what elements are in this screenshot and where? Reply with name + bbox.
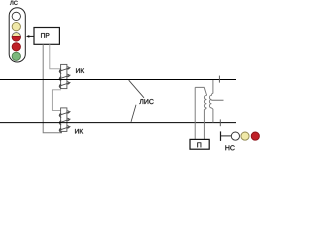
signal НС lamp yellow: [241, 132, 249, 140]
wire ПР right down to upper coil: [50, 44, 61, 69]
label НС: [225, 145, 234, 150]
arrow ПР to signal: [26, 35, 34, 38]
wire ПР left down to lower coil: [43, 44, 61, 133]
signal НС lamp white: [231, 132, 239, 140]
lamp green: [12, 52, 20, 60]
lamp yellow: [12, 22, 20, 30]
coil ИК upper: winding: [59, 67, 70, 88]
relay box ПР: [34, 28, 59, 45]
wire right winding top to upper rail: [211, 80, 213, 94]
label ИК lower: [75, 129, 83, 134]
transformer left winding wire to rail (left loop): [195, 87, 206, 94]
coil ИК upper: core: [61, 64, 67, 88]
coil ИК lower: winding: [59, 111, 70, 132]
leader ЛИС to upper rail: [129, 80, 144, 98]
wire left winding bottom to box П: [204, 108, 206, 139]
signal НС mast bar: [220, 131, 222, 141]
coil ИК lower: core: [61, 108, 67, 131]
bond tick on lower rail: [219, 119, 221, 126]
transformer left winding: [204, 94, 206, 108]
rail lower: [0, 122, 236, 124]
signal НС mast line: [221, 135, 232, 137]
receiver box П: [190, 139, 209, 149]
signal ЛС head: [9, 8, 25, 62]
label ЛИС: [139, 99, 153, 104]
bond tick on upper rail: [218, 76, 220, 83]
lamp half yellow/red: [12, 33, 20, 41]
leader ЛИС to lower rail: [131, 105, 136, 122]
signal ЛС label: [10, 1, 18, 5]
wire right winding bottom to lower rail: [211, 108, 213, 123]
lamp red: [12, 43, 20, 51]
rail upper: [0, 79, 236, 81]
transformer right winding: [209, 94, 211, 108]
label ИК upper: [76, 68, 84, 73]
lamp white: [12, 12, 20, 20]
wire link between coils: [52, 90, 61, 111]
tap line from right winding: [211, 99, 223, 101]
signal НС lamp red: [251, 132, 259, 140]
wire left loop down to box П: [194, 87, 196, 139]
